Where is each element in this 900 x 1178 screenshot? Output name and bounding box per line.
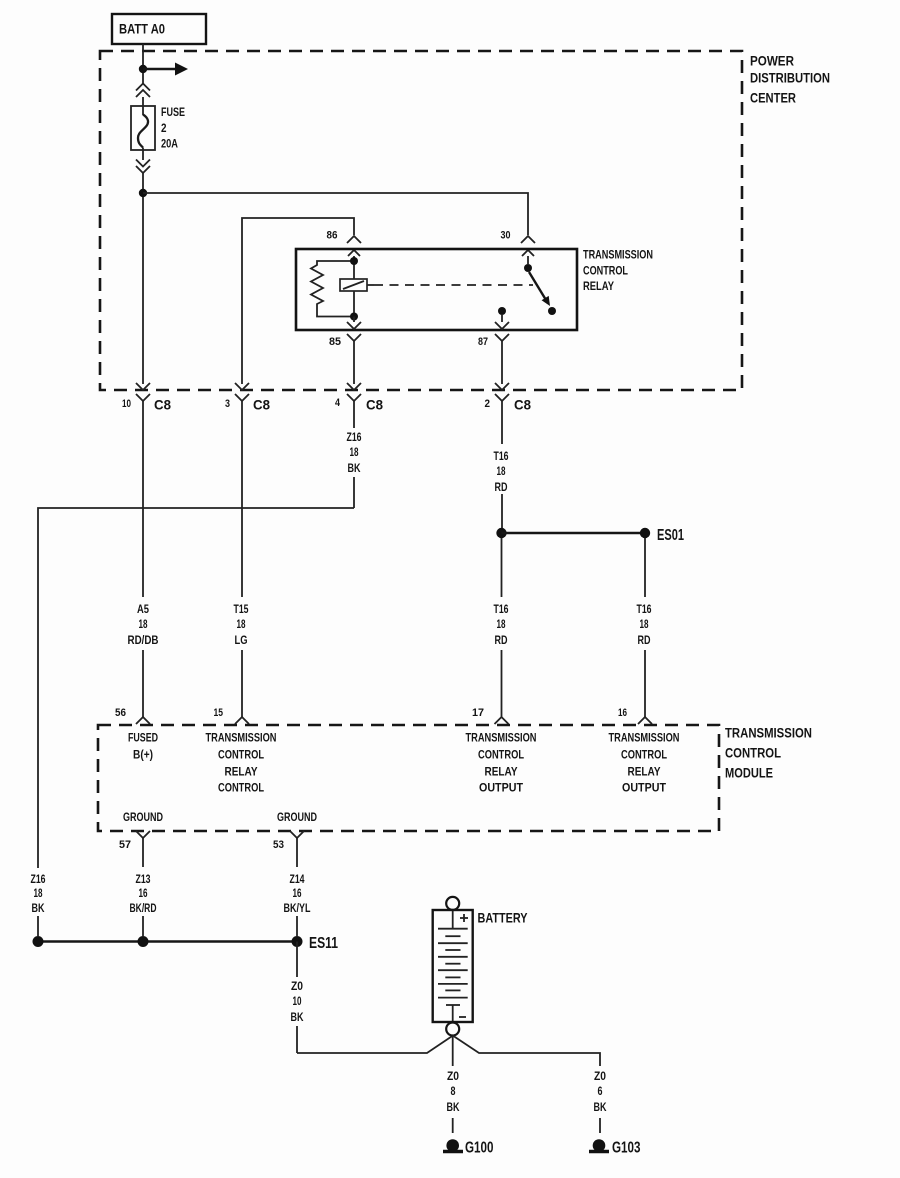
svg-text:2: 2 <box>485 398 491 410</box>
svg-text:POWER: POWER <box>750 54 794 69</box>
label Z16 18 BK (left wire) <box>31 872 46 915</box>
label Z0 10 BK <box>291 979 304 1024</box>
svg-text:T16: T16 <box>637 602 652 616</box>
relay K1 box <box>296 249 577 330</box>
svg-text:BK: BK <box>348 461 361 475</box>
label T16 18 RD <box>494 602 509 647</box>
wire TCM 57 to ES11 <box>142 845 144 936</box>
svg-text:18: 18 <box>350 445 359 459</box>
battery B1 <box>433 897 473 1036</box>
svg-text:RD: RD <box>638 633 651 647</box>
svg-text:T15: T15 <box>234 602 249 616</box>
svg-text:BK/YL: BK/YL <box>284 901 311 915</box>
relay actuator dashed link <box>367 284 533 286</box>
svg-text:18: 18 <box>497 617 506 631</box>
svg-text:TRANSMISSION: TRANSMISSION <box>725 726 812 741</box>
svg-text:Z14: Z14 <box>290 872 305 886</box>
svg-text:18: 18 <box>497 464 506 478</box>
svg-text:85: 85 <box>329 336 341 348</box>
svg-text:86: 86 <box>327 230 338 242</box>
TCM pin 16 connector <box>638 711 652 724</box>
wire ES11 to battery negative <box>297 942 453 1054</box>
TCM label TRANSMISSION CONTROL RELAY OUTPUT (pin 16) <box>609 731 680 795</box>
relay internal resistor (parallel with coil) <box>311 261 354 317</box>
svg-text:RD/DB: RD/DB <box>128 633 159 647</box>
wire battery negative to G103 branch <box>453 1036 600 1067</box>
svg-text:BK/RD: BK/RD <box>130 901 157 915</box>
label Z16 18 BK <box>347 430 362 475</box>
svg-text:BK: BK <box>447 1100 460 1114</box>
svg-text:2: 2 <box>161 121 167 135</box>
wire C8-4 to splice ES11 run <box>353 408 355 508</box>
relay pin 87 terminal node <box>498 307 506 315</box>
svg-text:RELAY: RELAY <box>583 279 614 293</box>
svg-text:GROUND: GROUND <box>123 810 163 824</box>
svg-text:8: 8 <box>451 1084 456 1098</box>
connector C8 cavity 2 <box>495 383 509 408</box>
svg-text:OUTPUT: OUTPUT <box>622 781 667 795</box>
svg-text:ES11: ES11 <box>309 935 338 952</box>
svg-text:18: 18 <box>34 886 43 900</box>
svg-text:87: 87 <box>478 336 488 348</box>
svg-text:GROUND: GROUND <box>277 810 317 824</box>
wire left stub to ES11 <box>37 916 39 936</box>
label 10 C8 <box>122 397 171 413</box>
svg-text:BK: BK <box>291 1010 304 1024</box>
wire relay 85 to C8 <box>353 341 355 384</box>
connector C8 cavity 3 <box>235 383 249 408</box>
TCM pin 56 connector <box>136 711 150 724</box>
svg-text:RD: RD <box>495 480 508 494</box>
TCM pin 17 connector <box>495 711 509 724</box>
fuse F2 20A <box>131 97 155 160</box>
svg-text:RD: RD <box>495 633 508 647</box>
svg-text:RELAY: RELAY <box>225 765 258 779</box>
TCM label TRANSMISSION CONTROL RELAY CONTROL <box>206 731 277 795</box>
svg-text:16: 16 <box>618 707 627 719</box>
svg-text:FUSED: FUSED <box>128 731 158 745</box>
svg-text:30: 30 <box>501 230 511 242</box>
wire fuse to junction node <box>142 173 144 384</box>
svg-text:FUSE: FUSE <box>161 105 185 119</box>
svg-text:DISTRIBUTION: DISTRIBUTION <box>750 71 830 86</box>
svg-text:B(+): B(+) <box>133 748 153 762</box>
wire junction to relay pin 30 <box>143 193 528 235</box>
svg-text:16: 16 <box>293 886 302 900</box>
power distribution center dashed box <box>100 51 742 390</box>
svg-text:C8: C8 <box>514 397 531 413</box>
relay switch arm from pin 30 <box>524 264 556 315</box>
TCM pin 53 connector <box>290 831 304 845</box>
wire horizontal run to left <box>38 508 354 868</box>
wire TCM pin15 branch to relay pin 86 <box>242 218 354 384</box>
svg-text:18: 18 <box>640 617 649 631</box>
ground G100 <box>443 1139 494 1156</box>
wire C8-2 to splice ES01 <box>501 408 503 528</box>
label TRANSMISSION CONTROL MODULE <box>725 726 812 781</box>
inline connector chevrons above fuse <box>136 84 150 98</box>
svg-text:BK: BK <box>32 901 45 915</box>
wire battery negative straight down to G100 <box>452 1036 454 1134</box>
svg-text:MODULE: MODULE <box>725 766 773 781</box>
label FUSE 2 20A <box>161 105 185 151</box>
svg-text:Z16: Z16 <box>31 872 46 886</box>
svg-text:6: 6 <box>598 1084 603 1098</box>
label Z0 6 BK <box>594 1069 607 1114</box>
label 3 C8 <box>225 397 270 413</box>
node coil top <box>350 257 358 265</box>
splice ES11 <box>33 935 339 952</box>
svg-text:CONTROL: CONTROL <box>583 264 628 278</box>
svg-text:17: 17 <box>472 707 484 719</box>
label T15 18 LG <box>234 602 249 647</box>
relay pin 85 connector chevrons <box>347 317 361 342</box>
svg-text:53: 53 <box>273 839 284 851</box>
svg-text:18: 18 <box>237 617 246 631</box>
connector C8 cavity 4 <box>347 383 361 408</box>
svg-text:Z0: Z0 <box>447 1069 459 1083</box>
wire relay 87 to C8 <box>501 341 503 384</box>
svg-text:OUTPUT: OUTPUT <box>479 781 524 795</box>
svg-text:TRANSMISSION: TRANSMISSION <box>206 731 277 745</box>
svg-text:TRANSMISSION: TRANSMISSION <box>609 731 680 745</box>
label Z13 16 BK/RD <box>130 872 157 915</box>
wire TCM 53 to ES11 <box>296 845 298 936</box>
svg-text:10: 10 <box>122 398 131 410</box>
svg-text:LG: LG <box>235 633 248 647</box>
relay pin 87 connector chevrons <box>495 315 509 341</box>
svg-text:CONTROL: CONTROL <box>218 781 264 795</box>
label T16 18 RD <box>637 602 652 647</box>
svg-text:G103: G103 <box>612 1140 641 1157</box>
svg-text:TRANSMISSION: TRANSMISSION <box>583 248 653 262</box>
relay pin 86 connector chevrons <box>347 236 361 261</box>
svg-text:G100: G100 <box>465 1140 494 1157</box>
svg-text:CONTROL: CONTROL <box>478 748 524 762</box>
svg-text:Z0: Z0 <box>594 1069 606 1083</box>
wire ES01 to TCM pin 16 <box>644 538 646 711</box>
svg-text:C8: C8 <box>366 397 383 413</box>
label 4 C8 <box>335 397 383 413</box>
inline connector chevrons below fuse <box>136 160 150 174</box>
svg-text:20A: 20A <box>161 137 178 151</box>
svg-text:18: 18 <box>139 617 148 631</box>
svg-text:CENTER: CENTER <box>750 91 796 106</box>
transmission control module dashed box <box>98 725 719 831</box>
svg-text:15: 15 <box>214 707 224 719</box>
wire C8-3 to TCM pin 15 <box>241 408 243 711</box>
svg-text:CONTROL: CONTROL <box>621 748 667 762</box>
svg-text:57: 57 <box>119 839 131 851</box>
svg-text:CONTROL: CONTROL <box>218 748 264 762</box>
label Z14 16 BK/YL <box>284 872 311 915</box>
svg-text:56: 56 <box>115 707 126 719</box>
svg-text:RELAY: RELAY <box>628 765 661 779</box>
relay pin 30 connector chevrons <box>521 236 535 264</box>
svg-text:C8: C8 <box>253 397 270 413</box>
svg-text:BATT A0: BATT A0 <box>119 21 165 37</box>
svg-text:4: 4 <box>335 397 341 409</box>
label Z0 8 BK <box>447 1069 460 1114</box>
arrow branch to other circuits <box>143 63 188 76</box>
svg-text:16: 16 <box>139 886 148 900</box>
connector C8 cavity 10 <box>136 383 150 408</box>
svg-text:T16: T16 <box>494 602 509 616</box>
svg-text:10: 10 <box>293 994 302 1008</box>
label TRANSMISSION CONTROL RELAY <box>583 248 653 294</box>
ground G103 <box>589 1139 641 1156</box>
svg-text:ES01: ES01 <box>657 527 684 544</box>
TCM label FUSED B(+) <box>128 731 158 762</box>
wire ES01 to TCM pin 17 <box>501 538 503 711</box>
label 2 C8 <box>485 397 532 413</box>
wire from BATT A0 down <box>142 44 144 84</box>
node coil bottom <box>350 313 358 321</box>
label POWER DISTRIBUTION CENTER <box>750 54 830 106</box>
svg-text:RELAY: RELAY <box>485 765 518 779</box>
wire C8-10 to TCM pin 56 <box>142 408 144 711</box>
svg-text:A5: A5 <box>137 602 149 616</box>
label A5 18 RD/DB <box>128 602 159 647</box>
svg-text:TRANSMISSION: TRANSMISSION <box>466 731 537 745</box>
node junction feeding relay pin 30 <box>139 189 147 197</box>
wire stub to G103 <box>599 1118 601 1133</box>
svg-text:Z16: Z16 <box>347 430 362 444</box>
svg-text:CONTROL: CONTROL <box>725 746 781 761</box>
svg-text:T16: T16 <box>494 449 509 463</box>
node junction at fuse feed <box>139 65 147 73</box>
relay coil element <box>340 261 367 317</box>
TCM pin 15 connector <box>235 711 249 724</box>
svg-text:Z13: Z13 <box>136 872 151 886</box>
splice ES01 <box>496 527 684 544</box>
svg-text:BK: BK <box>594 1100 607 1114</box>
TCM label TRANSMISSION CONTROL RELAY OUTPUT (pin 17) <box>466 731 537 795</box>
svg-text:C8: C8 <box>154 397 171 413</box>
svg-text:BATTERY: BATTERY <box>478 910 529 926</box>
svg-text:3: 3 <box>225 398 230 410</box>
svg-text:Z0: Z0 <box>291 979 303 993</box>
TCM pin 57 connector <box>136 831 150 845</box>
label T16 18 RD <box>494 449 509 494</box>
connector box BATT A0 <box>112 14 206 44</box>
